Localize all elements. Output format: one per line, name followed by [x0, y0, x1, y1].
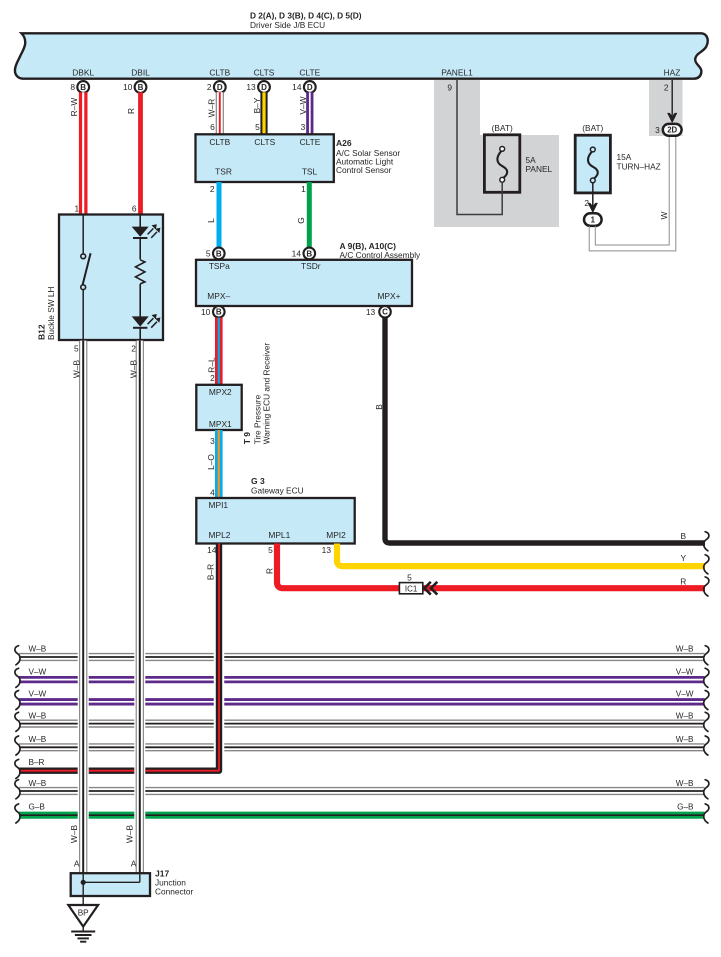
fuse 15A TURN-HAZ symbol	[588, 147, 598, 183]
svg-text:W–B: W–B	[124, 825, 134, 844]
svg-text:W–B: W–B	[129, 360, 139, 379]
svg-text:V–W: V–W	[676, 668, 694, 677]
LED wire lower	[139, 328, 141, 340]
connector 1 oval	[584, 213, 602, 226]
svg-text:B: B	[80, 83, 86, 92]
svg-text:C: C	[382, 308, 388, 317]
wire W connector 1 to 2D outer	[589, 136, 676, 251]
break V-W right	[704, 691, 709, 710]
switch wire upper	[82, 216, 84, 254]
fuse 15A TURN-HAZ label	[617, 152, 661, 171]
wire fuse TURN-HAZ to connector 1	[592, 183, 594, 206]
wire Y G3 MPI2 to right	[337, 544, 705, 567]
connector 2D oval	[663, 124, 682, 136]
wire W-B casing x=83.2	[78, 343, 89, 872]
pin 10 terminal B MPX-	[201, 306, 225, 318]
A/C solar sensor A26 box	[196, 134, 334, 182]
svg-text:R: R	[265, 568, 275, 574]
svg-text:B: B	[681, 531, 687, 541]
svg-text:2: 2	[210, 184, 215, 194]
svg-text:D: D	[261, 83, 267, 92]
svg-text:T 9: T 9	[242, 432, 252, 445]
J17 internal wire down	[82, 882, 84, 896]
svg-text:W–B: W–B	[29, 712, 47, 721]
break W-B left	[15, 736, 20, 755]
wire W-B B12 to J17 x=83.2	[79, 341, 87, 874]
svg-text:Control Sensor: Control Sensor	[336, 165, 392, 175]
svg-text:D: D	[307, 83, 313, 92]
svg-text:B: B	[216, 249, 222, 258]
break W-B right	[704, 780, 709, 799]
junction connector IC1	[399, 583, 422, 594]
svg-text:W: W	[659, 211, 669, 219]
svg-text:B: B	[216, 308, 222, 317]
wire PANEL1 to fuse	[457, 80, 502, 215]
svg-text:6: 6	[132, 204, 137, 214]
svg-text:10: 10	[123, 82, 133, 92]
svg-text:TSL: TSL	[302, 167, 318, 177]
svg-text:8: 8	[70, 82, 75, 92]
wire G A26 TSL to A/C assembly TSDr	[307, 182, 312, 248]
gray region PANEL1 circuit	[434, 80, 559, 227]
svg-text:R: R	[126, 108, 136, 114]
LED-resistor wire	[139, 238, 141, 260]
svg-text:14: 14	[207, 545, 217, 555]
svg-text:2: 2	[207, 82, 212, 92]
gateway ECU G3 name label	[251, 476, 304, 495]
svg-text:TSPa: TSPa	[209, 261, 230, 271]
resistor R1	[136, 260, 145, 284]
pin 5 terminal B TSPa	[206, 248, 225, 260]
svg-text:R: R	[680, 576, 686, 586]
break G-B right	[704, 804, 709, 823]
buckle switch B12 name label	[37, 287, 57, 340]
svg-text:2: 2	[664, 83, 669, 93]
break G-B left	[15, 804, 20, 823]
junction connector J17 box	[71, 873, 150, 896]
svg-text:G–B: G–B	[29, 802, 46, 811]
junction block D Driver Side J/B ECU bus	[15, 33, 708, 78]
ground symbol	[71, 932, 95, 942]
svg-text:MPI2: MPI2	[326, 530, 346, 540]
svg-text:MPL2: MPL2	[209, 530, 231, 540]
A/C control assembly name label	[340, 241, 422, 260]
wire R DBIL to B12 pin 6	[138, 92, 143, 214]
A26 name label	[336, 138, 400, 175]
buckle switch B12 box	[59, 215, 163, 341]
LED wire upper	[139, 216, 141, 228]
svg-text:4: 4	[210, 488, 215, 498]
svg-text:MPX–: MPX–	[207, 291, 230, 301]
svg-text:BP: BP	[78, 909, 89, 918]
svg-text:R–W: R–W	[69, 98, 79, 117]
svg-text:CLTB: CLTB	[209, 68, 230, 78]
svg-text:IC1: IC1	[405, 585, 418, 594]
svg-text:B–Y: B–Y	[252, 97, 262, 113]
svg-text:14: 14	[292, 249, 302, 259]
IC1 chevron arrows	[424, 582, 437, 595]
svg-text:MPX1: MPX1	[209, 419, 232, 429]
tire pressure ECU T9 box	[196, 385, 241, 430]
svg-text:W–B: W–B	[676, 735, 694, 744]
wire B MPX+ to right	[385, 318, 705, 543]
wire L A26 TSR to A/C assembly TSPa	[217, 182, 222, 248]
svg-text:13: 13	[246, 82, 256, 92]
break W-B right	[704, 736, 709, 755]
svg-text:MPX2: MPX2	[209, 387, 232, 397]
svg-text:B–R: B–R	[206, 564, 216, 580]
svg-text:MPL1: MPL1	[268, 530, 290, 540]
svg-text:PANEL: PANEL	[526, 164, 553, 174]
wire B-R colored	[19, 544, 219, 771]
J17 internal wire right leg	[139, 874, 141, 882]
LED D2	[132, 314, 161, 328]
svg-text:13: 13	[322, 545, 332, 555]
wire G-B horizontal	[19, 812, 705, 819]
wire fuse 5A internal	[501, 182, 503, 194]
svg-text:W–B: W–B	[676, 779, 694, 788]
svg-text:MPX+: MPX+	[377, 291, 400, 301]
svg-text:TSR: TSR	[215, 167, 232, 177]
svg-text:V–W: V–W	[676, 690, 694, 699]
svg-text:L: L	[206, 218, 216, 223]
switch contact lower	[81, 285, 86, 290]
break V-W left	[15, 668, 20, 687]
svg-text:Buckle SW LH: Buckle SW LH	[46, 287, 56, 340]
svg-text:CLTE: CLTE	[300, 137, 321, 147]
A/C control assembly A9/A10 box	[196, 260, 412, 306]
svg-text:W–B: W–B	[29, 779, 47, 788]
svg-text:Driver Side J/B ECU: Driver Side J/B ECU	[250, 20, 325, 30]
J17 name label	[155, 869, 194, 897]
svg-text:5: 5	[206, 249, 211, 259]
break symbol Y right	[704, 555, 709, 574]
pin 13 terminal C MPX+	[366, 306, 391, 318]
svg-text:B: B	[138, 83, 144, 92]
svg-text:W–B: W–B	[676, 645, 694, 654]
svg-text:MPI1: MPI1	[209, 500, 229, 510]
pin 2 terminal D CLTB	[207, 81, 226, 93]
svg-text:W–B: W–B	[29, 645, 47, 654]
svg-text:13: 13	[366, 307, 376, 317]
break W-B left	[15, 646, 20, 665]
svg-text:W–R: W–R	[207, 99, 217, 118]
svg-text:CLTB: CLTB	[209, 137, 230, 147]
svg-text:3: 3	[655, 125, 660, 135]
switch contact upper	[81, 254, 86, 259]
wire BP to ground	[82, 927, 84, 932]
break V-W left	[15, 691, 20, 710]
switch wire lower	[82, 290, 84, 340]
svg-text:10: 10	[201, 307, 211, 317]
svg-text:5: 5	[407, 572, 412, 582]
wire W-B horizontal	[19, 719, 705, 727]
svg-text:DBIL: DBIL	[131, 68, 150, 78]
break symbol B right	[704, 532, 709, 551]
svg-text:1: 1	[591, 215, 596, 224]
svg-text:V–W: V–W	[298, 96, 308, 114]
svg-text:2: 2	[210, 373, 215, 383]
wire W-B horizontal	[19, 743, 705, 751]
wire W-B horizontal	[19, 787, 705, 795]
svg-text:L–O: L–O	[206, 454, 216, 470]
svg-text:W–B: W–B	[676, 712, 694, 721]
svg-text:TURN–HAZ: TURN–HAZ	[617, 161, 661, 171]
svg-text:(BAT): (BAT)	[582, 123, 603, 133]
svg-text:(BAT): (BAT)	[492, 123, 513, 133]
LED D1	[132, 224, 161, 238]
svg-text:B12: B12	[37, 324, 47, 340]
wire W-B casing x=139.8	[134, 343, 145, 872]
svg-text:W–B: W–B	[29, 735, 47, 744]
fuse 5A PANEL symbol	[497, 147, 507, 183]
ground point BP triangle	[68, 905, 98, 927]
wire B-Y CLTS to A26 pin 5	[260, 92, 267, 135]
wire R G3 MPL1 to right	[277, 544, 705, 589]
wire L-O T9 MPX1 to G3 MPI1	[215, 430, 223, 498]
gray region HAZ circuit	[649, 80, 683, 136]
svg-text:3: 3	[301, 122, 306, 132]
fuse 5A PANEL box	[484, 135, 519, 193]
svg-text:1: 1	[301, 184, 306, 194]
svg-text:A: A	[131, 859, 137, 869]
svg-text:D: D	[217, 83, 223, 92]
break B-R left	[15, 759, 20, 778]
svg-text:R–L: R–L	[206, 357, 216, 373]
wire W-B B12 to J17 x=139.8	[136, 341, 144, 874]
svg-text:V–W: V–W	[29, 668, 47, 677]
break symbol R right	[704, 577, 709, 596]
svg-text:9: 9	[447, 83, 452, 93]
wire R-W DBKL to B12 pin 1	[79, 92, 88, 214]
svg-text:CLTS: CLTS	[254, 68, 275, 78]
wire V-W CLTE to A26 pin 3	[306, 92, 313, 135]
break W-B left	[15, 780, 20, 799]
svg-text:B–R: B–R	[29, 758, 45, 767]
wire W connector 1 to 2D inner	[595, 136, 669, 245]
pin 14 terminal B TSDr	[292, 248, 315, 260]
svg-text:PANEL1: PANEL1	[441, 68, 473, 78]
wire B-R G3 MPL2 to left edge casing	[19, 546, 219, 771]
svg-text:W–B: W–B	[69, 825, 79, 844]
bus title label	[250, 11, 362, 31]
wire W-B horizontal	[19, 653, 705, 661]
break W-B right	[704, 646, 709, 665]
wire HAZ to 2D	[671, 80, 673, 116]
svg-text:A: A	[74, 859, 80, 869]
svg-text:G–B: G–B	[677, 802, 694, 811]
pin 10 terminal B DBIL	[123, 81, 146, 93]
J17 internal wire left leg	[82, 874, 84, 882]
svg-text:Y: Y	[681, 553, 687, 563]
gateway ECU G3 box	[196, 498, 354, 544]
svg-text:2: 2	[584, 198, 589, 208]
svg-text:14: 14	[292, 82, 302, 92]
pin 14 terminal D CLTE	[292, 81, 316, 93]
pin 8 terminal B DBKL	[70, 81, 89, 93]
svg-text:B: B	[374, 404, 384, 410]
svg-text:HAZ: HAZ	[664, 68, 681, 78]
svg-text:A26: A26	[336, 138, 352, 148]
break W-B right	[704, 712, 709, 731]
break W-B left	[15, 712, 20, 731]
svg-text:2: 2	[131, 344, 136, 354]
svg-text:Gateway ECU: Gateway ECU	[251, 485, 304, 495]
wire V-W horizontal	[19, 698, 705, 705]
svg-text:G: G	[296, 217, 306, 224]
svg-text:Warning ECU and Receiver: Warning ECU and Receiver	[261, 342, 271, 444]
switch blade	[83, 253, 91, 285]
arrow into connector 1	[588, 203, 598, 213]
svg-text:CLTS: CLTS	[254, 137, 275, 147]
J17 junction dot	[81, 880, 86, 885]
T9 name label	[242, 342, 271, 444]
svg-text:5: 5	[74, 344, 79, 354]
wire W-R CLTB to A26 pin 6	[216, 92, 224, 135]
svg-text:V–W: V–W	[29, 690, 47, 699]
svg-text:TSDr: TSDr	[301, 261, 321, 271]
svg-text:3: 3	[210, 436, 215, 446]
break V-W right	[704, 668, 709, 687]
wire J17 to ground	[82, 896, 84, 905]
resistor-LED wire	[139, 284, 141, 317]
svg-text:1: 1	[75, 204, 80, 214]
fuse 5A PANEL label	[526, 155, 553, 174]
svg-text:DBKL: DBKL	[72, 68, 94, 78]
svg-text:D 2(A), D 3(B), D 4(C), D 5(D): D 2(A), D 3(B), D 4(C), D 5(D)	[250, 11, 362, 21]
wire V-W horizontal	[19, 676, 705, 683]
svg-text:B: B	[306, 249, 312, 258]
wire R-L MPX- to T9 MPX2	[215, 318, 223, 385]
fuse 15A TURN-HAZ box	[575, 135, 610, 193]
svg-text:2D: 2D	[667, 126, 677, 135]
svg-text:CLTE: CLTE	[299, 68, 320, 78]
svg-text:6: 6	[210, 122, 215, 132]
svg-text:W–B: W–B	[71, 360, 81, 379]
arrow into connector 2D	[667, 113, 677, 123]
svg-text:5: 5	[268, 545, 273, 555]
pin 13 terminal D CLTS	[246, 81, 270, 93]
svg-text:Connector: Connector	[155, 887, 194, 897]
J17 internal wire	[83, 881, 140, 883]
svg-text:5: 5	[255, 122, 260, 132]
